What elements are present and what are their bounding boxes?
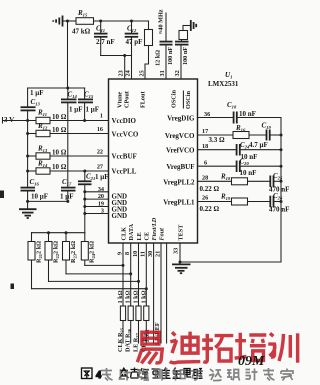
- pin label CLK: [121, 227, 128, 241]
- label C18: [227, 101, 237, 110]
- label U1: [225, 71, 232, 80]
- label C25: [273, 172, 283, 181]
- node 3V rail junction: [26, 119, 29, 122]
- label R19: [220, 193, 231, 202]
- svg-text:10 Ω: 10 Ω: [52, 113, 67, 121]
- resistor R23 body: [63, 233, 70, 274]
- pin number 3: [101, 208, 104, 215]
- svg-text:470 nF: 470 nF: [269, 206, 289, 214]
- label C12: [127, 25, 137, 34]
- pin number 6: [204, 159, 207, 166]
- resistor R19 body: [232, 198, 271, 205]
- wire Fout column: [160, 243, 162, 343]
- pin label VccBUF: [112, 153, 137, 161]
- pin number 11: [140, 251, 147, 257]
- svg-text:19: 19: [98, 201, 104, 208]
- pin number 33: [173, 248, 180, 254]
- scan artifact left edge: [0, 191, 4, 199]
- pin number 36: [204, 111, 210, 118]
- svg-text:VregPLL1: VregPLL1: [163, 199, 195, 207]
- label 1 uF (C21): [95, 173, 109, 181]
- label C13: [31, 98, 41, 107]
- svg-text:VregVCO: VregVCO: [165, 132, 195, 140]
- op-amp U1 LMX2531 IC body: [109, 79, 198, 243]
- label 470 nF (C25): [269, 185, 289, 193]
- wire Ftest/LD column: [153, 243, 155, 343]
- svg-text:1 μF: 1 μF: [69, 106, 83, 114]
- pin label TEST: [178, 224, 185, 241]
- label R14: [37, 160, 48, 169]
- svg-text:11: 11: [140, 251, 147, 257]
- svg-text:LE: LE: [136, 232, 143, 240]
- node junction C17 bottom: [66, 200, 69, 203]
- node junction top rail / C14: [66, 87, 69, 90]
- label C19: [262, 122, 272, 131]
- svg-text:CE: CE: [144, 232, 151, 241]
- svg-text:10 nF: 10 nF: [240, 169, 257, 177]
- label C16: [30, 178, 40, 187]
- pin label Vtune: [117, 92, 124, 108]
- node junction rail R14: [26, 170, 29, 173]
- watermark red char yi: [137, 332, 162, 364]
- label CE R28: [140, 332, 148, 352]
- pin number 16: [97, 126, 103, 133]
- wire pin20: [83, 198, 108, 201]
- wire pin34: [83, 190, 108, 193]
- pin number 24: [125, 70, 132, 76]
- pin label VccDIO: [112, 117, 137, 125]
- pin number 17: [202, 128, 208, 135]
- pin number 20: [98, 193, 104, 200]
- pin number 21: [155, 251, 162, 257]
- svg-text:2.7 nF: 2.7 nF: [96, 38, 115, 46]
- pin number 8: [124, 252, 131, 255]
- pin number 22: [97, 149, 103, 156]
- label 3.3 Ohm: [209, 136, 226, 144]
- svg-text:47 pF: 47 pF: [126, 38, 143, 46]
- pin label FLout: [140, 91, 147, 108]
- pin number 19: [98, 201, 104, 208]
- resistor R15 47k body: [76, 18, 94, 25]
- label R22 2k: [53, 241, 61, 263]
- wire ground to R15: [68, 20, 77, 22]
- svg-text:≈40 MHz: ≈40 MHz: [158, 9, 165, 34]
- label 0.22 Ohm (R18): [200, 185, 220, 193]
- label 40 MHz: [158, 9, 165, 34]
- wire pin18: [198, 149, 237, 151]
- wire R11 to pin1: [50, 120, 109, 122]
- label 10 nF (C20): [240, 169, 257, 177]
- watermark red char tuo: [202, 334, 233, 362]
- resistor R12 body: [28, 130, 50, 136]
- capacitor C26: [270, 196, 282, 208]
- wire right rail: [280, 118, 282, 263]
- svg-text:GND: GND: [112, 212, 128, 220]
- wire 3V rail mid: [27, 111, 29, 187]
- capacitor C22 100nF: [160, 42, 173, 79]
- pin number 27: [97, 164, 103, 171]
- scan artifact bottom-left: [11, 284, 15, 290]
- svg-text:Fout: Fout: [159, 228, 166, 241]
- label 470 nF (C26): [269, 206, 289, 214]
- pin label GND 19: [112, 206, 128, 214]
- ground below pin33: [172, 264, 191, 273]
- label 2.7 nF: [96, 38, 115, 46]
- svg-text:1 μF: 1 μF: [30, 89, 44, 97]
- ground top-right: [191, 20, 196, 31]
- wire CLK column: [122, 243, 124, 306]
- wire pin23: [124, 56, 126, 80]
- svg-text:VregPLL2: VregPLL2: [163, 178, 195, 186]
- svg-text:32: 32: [174, 70, 181, 76]
- wire C16-C17 ground link: [28, 200, 68, 202]
- wire R13 to pin22: [50, 155, 109, 157]
- wire pin19: [83, 205, 108, 208]
- svg-text:10 Ω: 10 Ω: [52, 163, 67, 171]
- svg-text:1 kΩ: 1 kΩ: [133, 290, 140, 303]
- pin number 9: [117, 252, 124, 255]
- pin label VregDIG: [167, 115, 195, 123]
- caption figure 4 label: [82, 368, 103, 381]
- wire pin33 to right rail: [180, 261, 281, 263]
- label 0.22 Ohm (R19): [200, 205, 220, 213]
- label 10 Ohm (R12): [52, 126, 67, 134]
- svg-text:OSCin: OSCin: [185, 91, 192, 109]
- wire R15 to 12k top: [94, 20, 149, 22]
- svg-text:FLout: FLout: [140, 91, 147, 108]
- pin number 18: [202, 143, 208, 150]
- svg-text:R212 kΩ: R212 kΩ: [36, 241, 44, 263]
- wire R21 to CE: [32, 287, 148, 290]
- ground top-left: [53, 16, 67, 27]
- label R21 2k: [36, 241, 44, 263]
- pin label VregPLL2: [163, 178, 195, 186]
- label C26: [273, 192, 283, 201]
- label 12 kOhm: [155, 50, 162, 66]
- watermark blue 09M: [238, 354, 265, 369]
- label LD/REF: [154, 322, 161, 345]
- pin label VregVCO: [165, 132, 195, 140]
- wire R24 to CLK: [85, 264, 125, 267]
- wire R14 to pin27: [50, 170, 109, 172]
- capacitor C12: [125, 21, 139, 79]
- wire pin6: [198, 165, 237, 167]
- resistor R17 12k body: [145, 21, 153, 79]
- pin number 28: [202, 175, 208, 182]
- wire 3V rail upper: [27, 88, 29, 107]
- label 47 pF: [126, 38, 143, 46]
- node junction bus top pin27: [83, 170, 86, 173]
- node junction rail R13: [26, 155, 29, 158]
- svg-text:24: 24: [125, 70, 132, 76]
- svg-text:27: 27: [97, 164, 103, 171]
- wire loop filter node to pin24: [101, 55, 132, 57]
- pin number 32: [174, 70, 181, 76]
- pin label VregPLL1: [163, 199, 195, 207]
- capacitor C19: [267, 130, 283, 141]
- capacitor C15: [78, 88, 93, 121]
- svg-text:Ftest/LD: Ftest/LD: [151, 217, 158, 240]
- label Fout bottom: [144, 329, 151, 342]
- label C17: [62, 178, 72, 187]
- label 10 nF (C18): [239, 110, 256, 118]
- svg-text:LMX2531: LMX2531: [208, 80, 239, 88]
- svg-text:CPout: CPout: [124, 90, 131, 108]
- svg-text:Vtune: Vtune: [117, 92, 124, 108]
- svg-text:18: 18: [202, 143, 208, 150]
- pin label GND 20: [112, 199, 128, 207]
- label R15: [77, 9, 88, 18]
- svg-text:100 nF: 100 nF: [182, 47, 189, 65]
- capacitor C17: [61, 188, 76, 202]
- pin label VregBUF: [166, 163, 194, 171]
- wire pin3: [83, 212, 108, 215]
- svg-text:3: 3: [101, 208, 104, 215]
- pin label VccVCO: [112, 131, 139, 139]
- label 100 nF (C22): [167, 47, 174, 65]
- capacitor C16: [21, 188, 36, 209]
- label 4.7 uF: [249, 141, 268, 149]
- capacitor C20: [237, 161, 283, 173]
- wire CE column: [145, 243, 147, 306]
- resistor R24 body: [81, 233, 88, 266]
- svg-text:100 nF: 100 nF: [167, 47, 174, 65]
- node junction C11 top: [99, 20, 102, 23]
- svg-text:23: 23: [118, 70, 125, 76]
- label 1 uF (C15): [86, 106, 100, 114]
- label 1 uF (C13): [30, 89, 44, 97]
- resistor R14 body: [28, 168, 50, 174]
- pin number 34: [98, 186, 104, 193]
- wire test aux column: [166, 243, 168, 343]
- resistor R27 body: [136, 306, 141, 343]
- resistor R22 body: [45, 233, 52, 282]
- svg-text:1 μF: 1 μF: [86, 106, 100, 114]
- pin label CE: [144, 232, 151, 241]
- label CLK R25: [117, 327, 125, 352]
- svg-text:20: 20: [98, 193, 104, 200]
- node A junction at 47k left: [66, 20, 69, 23]
- svg-text:VccVCO: VccVCO: [112, 131, 139, 139]
- svg-text:0.22 Ω: 0.22 Ω: [200, 185, 220, 193]
- svg-text:CLK: CLK: [121, 227, 128, 241]
- svg-text:1 kΩ: 1 kΩ: [117, 290, 124, 303]
- wire pin26: [198, 201, 232, 203]
- wire pin36: [198, 117, 234, 119]
- label 10 uF: [31, 193, 48, 201]
- svg-text:VccDIO: VccDIO: [112, 117, 137, 125]
- label C11: [96, 25, 105, 34]
- label R11: [37, 109, 47, 118]
- watermark red char pei: [235, 333, 267, 361]
- svg-text:9: 9: [117, 252, 124, 255]
- pin label /OSCin: [183, 91, 192, 109]
- svg-text:25: 25: [139, 70, 146, 76]
- wire LE column: [138, 243, 140, 306]
- capacitor C25: [270, 176, 282, 188]
- node junction C12 top: [130, 20, 133, 23]
- label 1 kOhm CLK: [117, 290, 124, 303]
- svg-text:10 Ω: 10 Ω: [52, 149, 67, 157]
- pin number 30: [147, 251, 154, 257]
- svg-text:26: 26: [202, 195, 208, 202]
- pin number 10: [132, 251, 139, 257]
- capacitor C21: [78, 171, 92, 233]
- svg-text:30: 30: [147, 251, 154, 257]
- svg-text:4: 4: [96, 370, 102, 381]
- svg-text:17: 17: [202, 128, 208, 135]
- svg-text:4.7 μF: 4.7 μF: [249, 141, 268, 149]
- label 10 nF (C24): [241, 153, 258, 161]
- capacitor C13: [21, 107, 36, 110]
- svg-text:1: 1: [100, 113, 103, 120]
- node junction rail R12: [26, 132, 29, 135]
- svg-text:36: 36: [204, 111, 210, 118]
- label 10 Ohm (R11): [52, 113, 67, 121]
- pin label Ftest/LD: [151, 217, 158, 240]
- svg-text:1 μF: 1 μF: [60, 193, 74, 201]
- capacitor C18: [234, 112, 281, 124]
- wire R22 to LE: [49, 280, 141, 283]
- svg-text:8: 8: [124, 252, 131, 255]
- svg-text:09M: 09M: [238, 354, 265, 369]
- svg-text:47 kΩ: 47 kΩ: [72, 28, 91, 36]
- svg-text:VccPLL: VccPLL: [112, 168, 137, 176]
- svg-text:DATA: DATA: [128, 223, 135, 240]
- label R23 2k: [70, 241, 78, 263]
- node junction C15 pin1: [83, 119, 86, 122]
- svg-text:21: 21: [155, 251, 162, 257]
- svg-text:VrefVCO: VrefVCO: [166, 147, 195, 155]
- label R16: [235, 124, 246, 133]
- wire R23 to DATA: [66, 272, 132, 275]
- label 47 kOhm: [72, 28, 91, 36]
- watermark red char di: [170, 332, 201, 363]
- svg-text:0.22 Ω: 0.22 Ω: [200, 205, 220, 213]
- wire pin28: [198, 180, 232, 182]
- node junction gnd wire: [26, 200, 29, 203]
- resistor R25 body: [120, 306, 125, 343]
- svg-text:VregDIG: VregDIG: [167, 115, 195, 123]
- label LMX2531: [208, 80, 239, 88]
- label R13: [37, 145, 48, 154]
- label 10 Ohm (R13): [52, 149, 67, 157]
- wire DATA column: [130, 243, 132, 306]
- svg-text:10: 10: [132, 251, 139, 257]
- capacitor C11: [94, 21, 108, 56]
- svg-text:12 kΩ: 12 kΩ: [155, 50, 162, 66]
- pin number 1: [100, 113, 103, 120]
- svg-text:34: 34: [98, 186, 104, 193]
- label R18: [220, 173, 231, 182]
- svg-text:1 kΩ: 1 kΩ: [125, 290, 132, 303]
- svg-text:VccBUF: VccBUF: [112, 153, 137, 161]
- label 1 kOhm LE: [133, 290, 140, 303]
- svg-text:R232 kΩ: R232 kΩ: [70, 241, 78, 263]
- label 1 uF (C14): [69, 106, 83, 114]
- svg-text:22: 22: [97, 149, 103, 156]
- label R12: [37, 122, 48, 131]
- resistor R18 body: [232, 178, 271, 185]
- pin label CPout: [124, 90, 131, 108]
- svg-text:10 nF: 10 nF: [239, 110, 256, 118]
- label C15: [84, 91, 94, 100]
- resistor R21 body: [28, 233, 35, 289]
- label 1 uF (C17): [60, 193, 74, 201]
- svg-text:10 μF: 10 μF: [31, 193, 48, 201]
- svg-text:VregBUF: VregBUF: [166, 163, 194, 171]
- wire pin33 to ground: [179, 243, 182, 264]
- label C20: [240, 158, 250, 167]
- pin number 23: [118, 70, 125, 76]
- label 1 kOhm DATA: [125, 290, 132, 303]
- label 10 Ohm (R14): [52, 163, 67, 171]
- pin label GND 34: [112, 192, 128, 200]
- svg-text:1 kΩ: 1 kΩ: [140, 290, 147, 303]
- label C24: [240, 141, 250, 150]
- wire pin17: [198, 134, 234, 136]
- resistor R16 body: [233, 132, 266, 139]
- watermark gray slogan zhuan-zhu-she-pin-he-wu-xian-she-ji-zhuan-jia: [101, 368, 293, 381]
- wire top bypass rail: [28, 87, 85, 89]
- svg-text:OSCin: OSCin: [171, 90, 178, 108]
- pin label OSCin: [171, 90, 178, 108]
- pin number 31: [159, 70, 166, 76]
- svg-text:R242 kΩ: R242 kΩ: [89, 241, 97, 263]
- wire 40 MHz input: [165, 13, 167, 41]
- svg-text:1 μF: 1 μF: [95, 173, 109, 181]
- pin label GND 3: [112, 212, 128, 220]
- pin number 25: [139, 70, 146, 76]
- label DAT R26: [125, 328, 133, 352]
- svg-text:33: 33: [173, 248, 180, 254]
- caption text can-kao-xin-hao-chan-sheng-dian-lu: [120, 368, 203, 379]
- svg-text:TEST: TEST: [178, 224, 185, 241]
- ground below C16: [19, 209, 37, 218]
- resistor R11 body: [36, 117, 50, 123]
- wire 3V input: [3, 118, 37, 124]
- wire pullup header: [32, 231, 85, 234]
- label 100 nF (C23): [182, 47, 189, 65]
- watermark red char xun: [268, 333, 297, 362]
- svg-text:R222 kΩ: R222 kΩ: [53, 241, 61, 263]
- svg-text:31: 31: [159, 70, 166, 76]
- wire gnd rail from 47k node down: [67, 21, 69, 88]
- label 1 kOhm CE: [140, 290, 147, 303]
- pin label DATA: [128, 223, 135, 240]
- node junction pin23: [123, 54, 126, 57]
- capacitor C24: [237, 144, 283, 156]
- pin label VccPLL: [112, 168, 137, 176]
- pin label Fout: [159, 228, 166, 241]
- svg-text:6: 6: [204, 159, 207, 166]
- capacitor C14: [61, 88, 77, 187]
- label C14: [68, 91, 78, 100]
- label LE R27: [133, 332, 141, 352]
- pin label LE: [136, 232, 143, 240]
- resistor R13 body: [28, 153, 50, 159]
- resistor R26 body: [128, 306, 133, 343]
- svg-text:16: 16: [97, 126, 103, 133]
- wire R12 to pin16: [50, 133, 109, 135]
- pin number 26: [202, 195, 208, 202]
- svg-text:28: 28: [202, 175, 208, 182]
- label C21: [86, 173, 95, 182]
- oscillator box: [179, 26, 191, 40]
- resistor R28 body: [144, 306, 149, 343]
- svg-text:3.3 Ω: 3.3 Ω: [209, 136, 226, 144]
- capacitor C23 100nF: [175, 40, 189, 80]
